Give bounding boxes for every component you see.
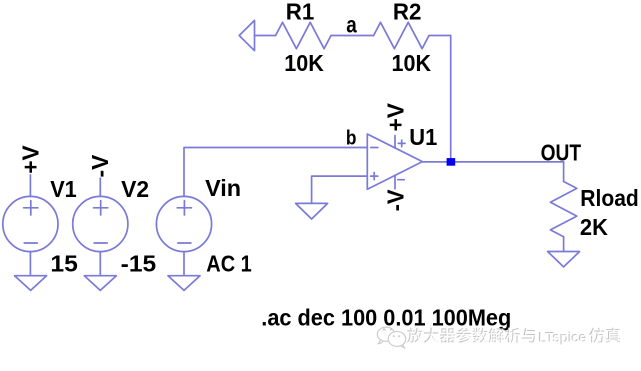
wire (Vin bottom to ground)	[183, 252, 185, 276]
wire (Rload to ground)	[563, 237, 565, 252]
svg-text:V1: V1	[50, 176, 76, 202]
watermark text 放大器参数解析与LTspice仿真	[407, 328, 620, 346]
svg-text:+V: +V	[382, 103, 408, 132]
wire (V2 top to -V)	[99, 178, 101, 196]
svg-text:V2: V2	[121, 176, 149, 202]
op-amp U1 top power pin	[394, 136, 396, 148]
svg-text:10K: 10K	[392, 50, 432, 76]
ground (rotated, left of R1)	[239, 20, 254, 50]
ground (op-amp non-inverting input)	[296, 203, 328, 219]
voltage source V2 plus mark	[94, 201, 108, 215]
svg-text:15: 15	[50, 251, 78, 277]
wire (V1 top to +V)	[29, 175, 31, 197]
wire (R1 to R2, node a)	[331, 35, 374, 37]
wire (R2 to top-right corner)	[429, 35, 451, 37]
op-amp U1 top power pin plus mark	[398, 140, 405, 147]
ground (V2)	[84, 276, 116, 291]
svg-text:OUT: OUT	[541, 140, 582, 166]
svg-text:b: b	[346, 127, 357, 150]
ground (V1)	[15, 276, 47, 291]
watermark logo (chat bubbles)	[377, 327, 405, 348]
voltage source V1 minus mark	[24, 242, 37, 244]
voltage source V2 circle	[73, 196, 128, 251]
svg-text:Rload: Rload	[580, 185, 639, 211]
op-amp U1 bottom power pin minus mark	[398, 179, 404, 181]
node (output junction square)	[447, 158, 456, 166]
svg-text:U1: U1	[409, 124, 437, 150]
svg-text:AC 1: AC 1	[206, 251, 252, 277]
resistor R1	[276, 22, 331, 48]
op-amp U1 inverting input minus mark	[371, 147, 378, 149]
svg-text:-V: -V	[87, 154, 113, 177]
svg-text:-V: -V	[382, 189, 408, 211]
voltage source Vin circle	[156, 196, 211, 251]
ground (Rload)	[548, 252, 580, 267]
svg-text:R2: R2	[393, 0, 422, 24]
wire (Vin to op-amp inverting input, node b)	[184, 148, 367, 197]
wire (feedback vertical, corner down to output node)	[450, 36, 452, 162]
wire (OUT rail down to Rload)	[563, 162, 565, 182]
voltage source V2 minus mark	[94, 242, 107, 244]
resistor Rload	[550, 182, 576, 237]
svg-text:a: a	[346, 11, 357, 37]
svg-text:2K: 2K	[580, 214, 608, 240]
svg-text:-15: -15	[121, 251, 157, 277]
svg-text:LTspice: LTspice	[539, 331, 588, 347]
wire (op-amp output to OUT rail)	[422, 161, 563, 163]
wire (V2 bottom to ground)	[99, 252, 101, 276]
voltage source V1 plus mark	[24, 201, 38, 215]
wire (V1 bottom to ground)	[29, 252, 31, 276]
voltage source V1 circle	[3, 196, 58, 251]
voltage source Vin plus mark	[177, 201, 191, 215]
op-amp U1 bottom power pin	[394, 175, 396, 188]
svg-text:R1: R1	[286, 0, 315, 24]
resistor R2	[374, 22, 429, 48]
ground (Vin)	[168, 276, 200, 291]
op-amp U1 non-inverting input plus mark	[371, 173, 378, 180]
wire (non-inverting input to ground)	[312, 176, 368, 203]
svg-text:Vin: Vin	[205, 175, 241, 201]
svg-text:10K: 10K	[284, 50, 324, 76]
wire (left ground to R1)	[255, 35, 276, 37]
op-amp U1 triangle	[367, 134, 422, 189]
svg-text:+V: +V	[18, 145, 44, 174]
voltage source Vin minus mark	[178, 242, 191, 244]
